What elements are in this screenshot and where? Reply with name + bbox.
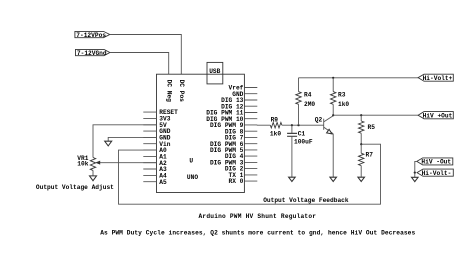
port flag HiV -Out: [417, 158, 453, 166]
ground below Q2: [330, 177, 337, 181]
Arduino UNO body U: [157, 74, 245, 192]
wire Hi-Volt+ rail: [299, 77, 419, 79]
node neg output junction: [414, 172, 416, 174]
wire A2 to VR1 wiper: [99, 162, 157, 164]
ground below C1: [289, 177, 296, 181]
svg-text:7-12VPos: 7-12VPos: [76, 32, 106, 39]
wire Output Voltage Feedback loop (A0 to R5/R7 junction): [119, 144, 381, 204]
wire 5V to VR1 top: [93, 125, 157, 158]
wire R9 to Q2 base: [282, 124, 324, 126]
svg-text:1k0: 1k0: [338, 101, 349, 108]
wire 7-12VPos to DC Pos pin: [110, 35, 182, 75]
node R3 top junction: [332, 77, 334, 79]
resistor R3 1k0: [331, 78, 350, 115]
svg-text:R3: R3: [338, 92, 346, 99]
resistor R5: [359, 115, 376, 144]
capacitor C1 100uF: [287, 125, 313, 177]
ground below GND pin: [105, 141, 112, 146]
svg-text:7-12VGnd: 7-12VGnd: [77, 50, 107, 57]
node C1/wire junction: [291, 124, 293, 126]
node R5 top junction: [360, 114, 362, 116]
svg-text:Hi-Volt-: Hi-Volt-: [422, 170, 452, 177]
svg-text:C1: C1: [298, 131, 306, 138]
right pin labels: [206, 85, 243, 186]
left pin labels: [159, 109, 178, 186]
svg-text:DC Pos: DC Pos: [178, 80, 185, 103]
wire HiV -Out to junction: [415, 161, 417, 172]
wire DIG PWM 9 to R9: [257, 124, 270, 126]
resistor R9 1k0: [270, 117, 282, 138]
svg-text:1k0: 1k0: [270, 130, 281, 137]
ground at neg output: [412, 173, 419, 182]
svg-text:Q2: Q2: [315, 116, 323, 123]
svg-text:10k: 10k: [77, 161, 88, 168]
node Q2 collector junction: [332, 114, 334, 116]
port flag Hi-Volt+: [418, 74, 453, 82]
svg-text:R7: R7: [366, 152, 374, 159]
svg-text:2M0: 2M0: [304, 101, 315, 108]
node R4/wire junction: [297, 124, 299, 126]
ground below R7: [358, 177, 365, 181]
svg-text:USB: USB: [209, 68, 220, 75]
VR1 wiper arrow: [95, 161, 100, 165]
svg-text:HiV -Out: HiV -Out: [421, 159, 451, 166]
svg-text:DC Neg: DC Neg: [165, 80, 172, 103]
transistor Q2 (NPN): [315, 116, 333, 134]
ground below VR1: [90, 170, 97, 180]
svg-text:Output Voltage Adjust: Output Voltage Adjust: [36, 184, 114, 191]
node R5/R7 junction: [360, 143, 362, 145]
wire Q2 emitter to ground: [332, 134, 334, 177]
USB connector box: [207, 62, 223, 84]
svg-text:RX 0: RX 0: [229, 178, 244, 185]
port flag Hi-Volt-: [417, 169, 453, 177]
svg-text:Hi-Volt+: Hi-Volt+: [423, 75, 453, 82]
svg-text:R4: R4: [304, 92, 312, 99]
wire GND pin: [108, 137, 156, 141]
svg-text:Arduino PWM HV Shunt Regulator: Arduino PWM HV Shunt Regulator: [199, 213, 317, 220]
svg-text:A5: A5: [159, 179, 167, 186]
potentiometer VR1 10k: [77, 155, 95, 171]
svg-text:U: U: [189, 158, 193, 165]
svg-text:UNO: UNO: [187, 174, 198, 181]
port flag HiV +Out: [418, 112, 453, 120]
resistor R7: [359, 144, 374, 177]
wire: left pin stubs: [143, 112, 156, 182]
resistor R4 2M0: [296, 78, 316, 125]
port flag 7-12VGnd: [76, 49, 110, 57]
svg-text:R5: R5: [368, 124, 376, 131]
wire collector to HiV +Out: [333, 114, 418, 116]
svg-text:As PWM Duty Cycle increases, Q: As PWM Duty Cycle increases, Q2 shunts m…: [100, 230, 415, 237]
svg-text:Output Voltage Feedback: Output Voltage Feedback: [263, 197, 349, 204]
svg-text:HiV +Out: HiV +Out: [423, 112, 453, 119]
svg-text:R9: R9: [271, 117, 279, 124]
svg-text:100uF: 100uF: [294, 138, 313, 145]
wire 7-12VGnd to DC Neg pin: [110, 53, 169, 75]
port flag 7-12VPos: [75, 31, 110, 39]
wire: right pin stubs: [244, 88, 257, 182]
